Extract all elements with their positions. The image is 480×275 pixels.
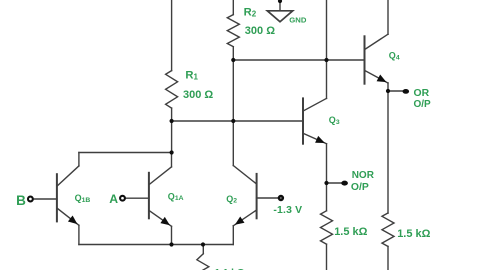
wire: R4 to bottom (387, 246, 389, 270)
wire: Q3 emitter down to R3 (326, 144, 328, 211)
transistor Q2 (256, 174, 258, 218)
node GND rail (278, 0, 282, 3)
transistor Q1A (148, 173, 150, 219)
svg-text:300 Ω: 300 Ω (183, 89, 213, 101)
node R2/base rail (231, 58, 235, 62)
svg-text:A: A (109, 192, 118, 206)
terminal OR output (403, 89, 410, 94)
svg-text:OR: OR (414, 88, 430, 99)
terminal -1.3V reference (279, 196, 283, 200)
wire: Q1B collector up and over to node (78, 153, 80, 166)
wire: Q2 emitter down to bus (232, 226, 234, 245)
svg-text:NOR: NOR (352, 170, 375, 181)
wire: VCC rail to R2 (232, 0, 234, 15)
resistor R1 (166, 71, 178, 109)
svg-text:B: B (16, 193, 26, 208)
node NOR (324, 181, 328, 185)
wire: Q1B emitter down (78, 225, 80, 244)
ground (279, 0, 281, 11)
node emitter bus tail (201, 242, 205, 246)
wire: Q4 emitter down to R4 (387, 83, 389, 213)
wire: emitter bus (79, 244, 233, 246)
terminal B input (28, 197, 33, 202)
svg-text:O/P: O/P (414, 99, 432, 110)
wire: OR tap (388, 90, 403, 92)
resistor R3 1.5k (321, 211, 333, 244)
node R1/Q3 base (170, 119, 174, 123)
svg-text:1.5 kΩ: 1.5 kΩ (334, 226, 367, 238)
transistor Q4 (364, 36, 366, 83)
terminal NOR output (341, 181, 348, 186)
node emitter bus A (169, 242, 173, 246)
svg-text:O/P: O/P (351, 182, 369, 193)
resistor R5 1.1k (cut off at bottom) (197, 254, 209, 275)
wire: R2 node to Q4 base (233, 59, 364, 61)
wire: Q2 collector diagonal (233, 166, 256, 185)
node R1/collectors (170, 150, 174, 154)
wire: collector node to Q3 base (172, 120, 303, 122)
wire: Q4 collector up to rail (387, 0, 389, 34)
wire: Q1A emitter down to bus (171, 226, 173, 244)
node R2/Q3 base (231, 119, 235, 123)
transistor Q3 (302, 98, 304, 143)
wire: Q1A collector to node (171, 153, 173, 167)
resistor R2 (227, 15, 239, 47)
node OR (386, 89, 390, 93)
svg-text:1.5 kΩ: 1.5 kΩ (397, 228, 430, 240)
svg-text:300 Ω: 300 Ω (245, 25, 275, 37)
wire: NOR tap (327, 182, 342, 184)
wire: R1 bottom to collector node (171, 108, 173, 153)
wire: VCC rail to R1 (171, 0, 173, 71)
svg-text:-1.3 V: -1.3 V (273, 205, 302, 216)
node Q3 collector (324, 58, 328, 62)
wire: R2 bottom down to Q2 collector (232, 47, 234, 166)
wire: bus to R5 (202, 245, 204, 254)
wire: R3 to bottom (326, 244, 328, 270)
svg-text:GND: GND (289, 15, 307, 24)
resistor R4 1.5k (382, 213, 394, 246)
terminal A input (120, 196, 125, 201)
transistor Q1B (56, 174, 58, 221)
wire: Q3 collector up to rail (326, 0, 328, 98)
